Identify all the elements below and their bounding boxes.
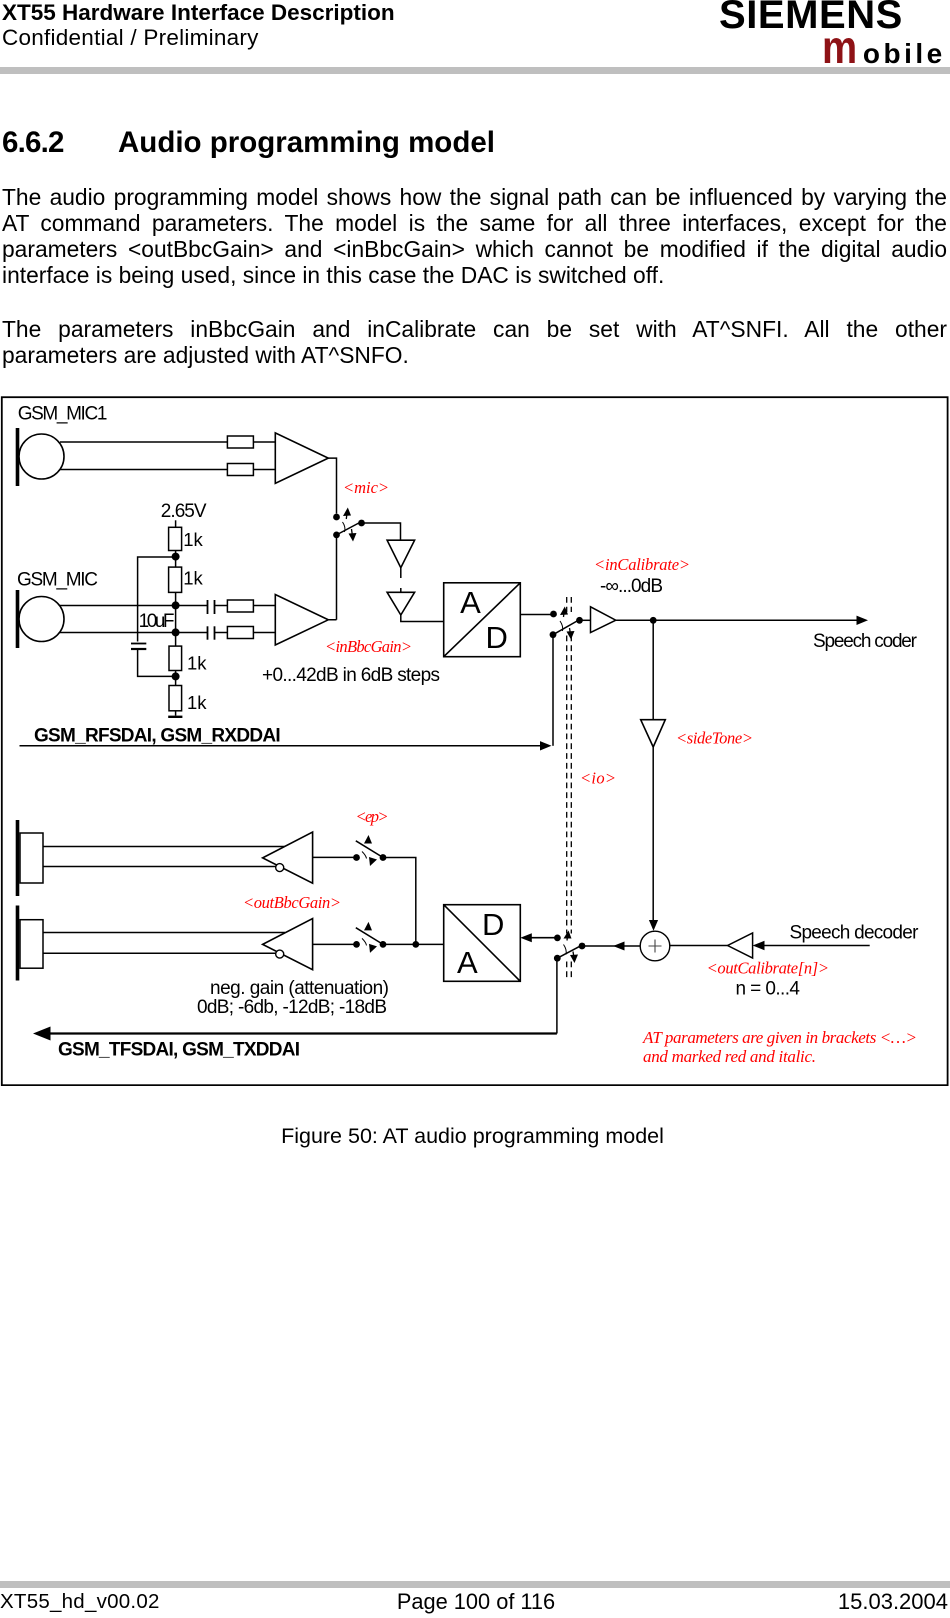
svg-text:neg. gain (attenuation): neg. gain (attenuation) [210, 978, 389, 999]
svg-text:2.65V: 2.65V [161, 501, 207, 522]
svg-text:1k: 1k [183, 529, 203, 550]
svg-text:1k: 1k [187, 692, 207, 713]
svg-text:+0...42dB in 6dB steps: +0...42dB in 6dB steps [262, 665, 440, 686]
svg-text:<outCalibrate[n]>: <outCalibrate[n]> [707, 959, 829, 978]
svg-text:10uF: 10uF [139, 611, 175, 632]
svg-text:<inCalibrate>: <inCalibrate> [594, 555, 690, 574]
svg-text:A: A [460, 585, 481, 620]
svg-text:A: A [457, 945, 478, 980]
svg-text:-∞...0dB: -∞...0dB [600, 576, 663, 597]
svg-text:D: D [482, 907, 504, 942]
svg-text:GSM_MIC: GSM_MIC [17, 570, 98, 591]
svg-text:D: D [486, 620, 508, 655]
svg-text:<outBbcGain>: <outBbcGain> [243, 893, 341, 912]
svg-text:GSM_MIC1: GSM_MIC1 [18, 404, 108, 425]
svg-text:Speech coder: Speech coder [813, 631, 918, 652]
svg-text:<io>: <io> [580, 769, 616, 788]
svg-text:<sideTone>: <sideTone> [676, 729, 753, 748]
svg-text:GSM_TFSDAI, GSM_TXDDAI: GSM_TFSDAI, GSM_TXDDAI [58, 1040, 300, 1061]
svg-text:GSM_RFSDAI, GSM_RXDDAI: GSM_RFSDAI, GSM_RXDDAI [34, 726, 281, 747]
svg-text:AT parameters are given in bra: AT parameters are given in brackets <…> [642, 1028, 917, 1047]
svg-text:1k: 1k [183, 568, 203, 589]
svg-text:<mic>: <mic> [343, 478, 389, 497]
svg-text:1k: 1k [187, 653, 207, 674]
svg-text:and marked red and italic.: and marked red and italic. [643, 1047, 816, 1066]
svg-text:Speech decoder: Speech decoder [790, 923, 920, 944]
svg-text:<ep>: <ep> [356, 807, 389, 826]
svg-text:n = 0...4: n = 0...4 [736, 979, 801, 1000]
svg-text:0dB; -6db, -12dB; -18dB: 0dB; -6db, -12dB; -18dB [197, 997, 387, 1018]
svg-text:<inBbcGain>: <inBbcGain> [325, 637, 412, 656]
